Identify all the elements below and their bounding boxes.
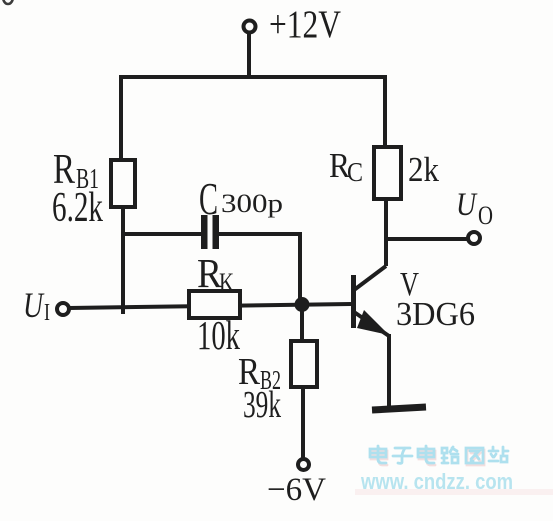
svg-text:+12V: +12V [269,3,341,46]
wire: top horizontal rail [119,75,386,79]
transistor V collector diagonal [354,266,386,290]
wire: capacitor branch vertical down to junction [298,232,302,305]
watermark char zhan [489,447,508,462]
svg-text:O: O [478,201,493,230]
svg-text:3DG6: 3DG6 [396,296,475,333]
wire: emitter vertical to ground [387,334,391,407]
pink scan streak bottom right [355,489,553,495]
transistor V base bar [351,275,356,328]
wire: RC vertical (RC to collector) [384,197,388,266]
svg-text:U: U [456,187,478,223]
wire: +12V stub [247,32,251,77]
svg-text:U: U [23,285,45,325]
watermark line 1: chinese characters [370,446,508,463]
svg-text:6.2k: 6.2k [52,185,103,231]
ground symbol [372,407,426,410]
watermark char dian1 [370,446,386,463]
svg-text:300p: 300p [221,189,283,218]
resistor RK body [189,291,240,318]
terminal UO [468,232,480,244]
transistor V emitter arrow [357,310,389,335]
wire: left vertical (RB1 to input line) [121,205,125,314]
svg-text:I: I [44,300,50,326]
svg-text:www. cndzz. com: www. cndzz. com [360,469,513,494]
resistor RB1 body [111,160,135,207]
terminal UI [57,303,69,315]
resistor RB2 body [291,341,317,387]
svg-text:K: K [219,268,234,297]
svg-text:2k: 2k [408,150,439,189]
partial glyph top-left corner [3,0,13,4]
capacitor C1 plates [201,215,219,249]
watermark char dian2 [418,446,434,463]
terminal -6V [298,459,309,470]
wire: output line [386,237,468,241]
watermark line 1 pink shadow [371,448,484,465]
wire: capacitor right lead [219,232,300,236]
wire: left vertical (top rail to RB1) [119,75,123,161]
watermark char zi [393,448,412,463]
wire: RB2 vertical (RB2 to -6V terminal) [301,385,305,459]
wire: input line from UI terminal to base [69,304,351,308]
svg-text:39k: 39k [243,384,281,426]
svg-text:−6V: −6V [267,472,326,508]
svg-text:C: C [199,174,218,224]
svg-text:10k: 10k [197,312,240,358]
transistor V emitter diagonal [354,312,389,336]
junction node (base node) [295,297,310,312]
wire: capacitor left lead [123,232,201,236]
resistor RC body [374,147,401,199]
wire: RB2 vertical (junction to RB2) [300,305,304,342]
svg-text:C: C [347,157,363,187]
terminal +12V [244,21,256,33]
watermark char tu [466,448,483,463]
watermark char lu [442,447,458,463]
wire: RC vertical (top rail to RC) [383,75,387,148]
